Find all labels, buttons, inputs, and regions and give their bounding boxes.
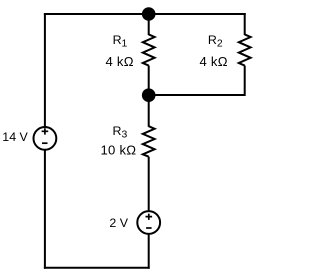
wire left branch upper bbox=[44, 13, 46, 127]
resistor R3 bbox=[143, 126, 155, 157]
svg-text:10 kΩ: 10 kΩ bbox=[101, 142, 137, 157]
wire top rail bbox=[44, 13, 246, 15]
voltage source 14 V bbox=[34, 127, 57, 150]
resistor R2 bbox=[239, 34, 251, 65]
wire R1 to node B bbox=[148, 66, 150, 96]
voltage source 2 V bbox=[137, 211, 160, 234]
svg-text:4 kΩ: 4 kΩ bbox=[200, 54, 228, 69]
wire left branch lower bbox=[44, 150, 46, 269]
svg-text:2 V: 2 V bbox=[109, 216, 128, 230]
wire bottom rail bbox=[44, 267, 150, 269]
svg-text:R3: R3 bbox=[113, 124, 128, 140]
svg-text:R2: R2 bbox=[208, 33, 223, 49]
wire R2 to node B bbox=[149, 66, 245, 96]
svg-text:R1: R1 bbox=[113, 33, 128, 49]
wire R3 to 2 V source bbox=[148, 157, 150, 212]
resistor R1 bbox=[143, 34, 155, 65]
svg-text:4 kΩ: 4 kΩ bbox=[106, 54, 134, 69]
wire node B to R3 bbox=[148, 95, 150, 127]
node junction B (middle) bbox=[142, 88, 156, 102]
wire right branch top bbox=[244, 13, 246, 35]
node junction A (top) bbox=[142, 7, 156, 21]
wire 2 V source to bottom rail bbox=[148, 234, 150, 269]
wire node A to R1 bbox=[148, 14, 150, 35]
svg-text:14 V: 14 V bbox=[2, 130, 28, 144]
